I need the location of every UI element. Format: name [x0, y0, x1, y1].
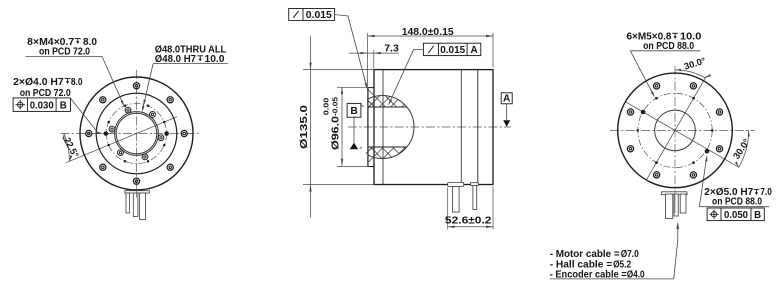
svg-text:B: B [350, 106, 357, 117]
right view dowel hole upper-left [641, 110, 646, 115]
left view 8 M4 holes on PCD72 [107, 104, 165, 162]
right view PCD88 pitch circle [638, 93, 712, 167]
svg-text:B: B [754, 210, 761, 221]
svg-text:7.3: 7.3 [384, 43, 399, 54]
right view 60deg index line [646, 76, 706, 180]
right view vertical centerline [674, 66, 676, 213]
middle hub section circle [351, 96, 414, 159]
parallelism frame 1 leader [335, 15, 367, 87]
parallelism frame 2 box [423, 43, 480, 55]
svg-text:on PCD 72.0: on PCD 72.0 [20, 88, 71, 99]
dim 7.3 extension [373, 50, 375, 69]
middle bore top line [368, 106, 407, 108]
dim 96 extension top [337, 86, 369, 88]
svg-text:Ø135.0: Ø135.0 [299, 105, 310, 149]
label 6xM5 underline leader [630, 50, 700, 52]
right view 6 M5 holes on PCD88 [637, 97, 714, 164]
left view counterbore circle D48 H7 [115, 112, 159, 156]
angle dim 30 right arc [739, 130, 749, 167]
left view 22.5deg index line [66, 117, 177, 163]
svg-text:A: A [470, 45, 478, 56]
svg-text:0.050: 0.050 [724, 210, 748, 221]
svg-text:on PCD 88.0: on PCD 88.0 [712, 196, 762, 207]
dim 52.6 extension right [492, 187, 494, 230]
right view dowel hole lower-right [705, 149, 710, 154]
left view centerline over cables [136, 188, 138, 198]
datum B leader [353, 117, 355, 142]
dim 135 extension top [303, 69, 374, 71]
middle cable boot 2 [471, 183, 479, 186]
note underline and leader [550, 278, 674, 280]
svg-text:7.0: 7.0 [760, 187, 772, 198]
dim 135 line [310, 36, 312, 218]
dim 7.3 line [349, 52, 399, 54]
datum A leader [506, 104, 508, 120]
right view 8 housing screws [627, 83, 722, 178]
left view dowel hole right [164, 131, 169, 136]
left view front opening circle D96 [96, 93, 177, 174]
left view vertical centerline [136, 70, 138, 198]
svg-text:0.015: 0.015 [306, 10, 332, 21]
middle motor cable side [453, 187, 460, 213]
dim 148 extension right [492, 33, 494, 68]
left view body outer circle D135 [80, 77, 193, 190]
datum A box [501, 93, 512, 104]
angle dimension 22.5deg arc [64, 134, 70, 162]
position frame right leader [699, 158, 706, 207]
dim 148 line [368, 35, 493, 37]
middle bore bottom line [368, 146, 407, 148]
label 8xM4 underline and leader [26, 55, 103, 57]
svg-text:148.0±0.15: 148.0±0.15 [402, 27, 454, 38]
position frame left leader [71, 98, 98, 132]
parallelism frame 2 leader [389, 49, 423, 103]
angle dim 30 top arc [675, 70, 705, 78]
middle front pilot bottom edge [368, 166, 374, 168]
label 2xD5 underline [699, 206, 769, 208]
dim 96 line [341, 87, 343, 166]
datum B box [347, 103, 361, 117]
middle cable boot 1 [448, 182, 464, 186]
svg-text:52.6±0.2: 52.6±0.2 [445, 215, 492, 226]
label D48 underline and leader [153, 63, 228, 65]
svg-text:- Motor cable =: - Motor cable = [550, 249, 620, 260]
right view motor cable [666, 194, 673, 219]
middle rear joint line 1 [460, 70, 462, 185]
svg-text:0.030: 0.030 [30, 101, 54, 112]
right view centerline over cables [674, 190, 676, 213]
dim 52.6 extension left [447, 188, 449, 230]
right view hall cable [674, 194, 678, 216]
position frame left box [13, 98, 70, 112]
middle hub hatching [306, 82, 548, 170]
svg-text:0.015: 0.015 [440, 45, 465, 56]
left view cable clamp bar [125, 191, 149, 193]
position frame right box [707, 208, 764, 221]
left view encoder cable [126, 193, 130, 213]
left view horizontal centerline [61, 133, 200, 135]
middle encoder cable side [473, 185, 477, 209]
svg-text:B: B [60, 101, 67, 112]
left view PCD72 pitch circle [106, 103, 166, 163]
middle view horizontal centerline [348, 126, 511, 128]
svg-text:Ø96.0: Ø96.0 [331, 116, 342, 150]
dim 52.6 line [448, 226, 493, 228]
dim 148 extension left [367, 33, 369, 87]
right view cable clamp bar [662, 192, 688, 195]
left view 8 housing screws on PCD115 [86, 83, 188, 185]
parallelism frame 1 box [289, 9, 335, 21]
right view bore circle D48 [655, 110, 696, 151]
left view bore circle D48 thru [116, 113, 157, 154]
svg-text:-0.05: -0.05 [330, 96, 339, 116]
svg-text:8.0: 8.0 [71, 77, 83, 88]
middle body rectangle [374, 70, 493, 185]
middle stator front joint line [382, 70, 384, 185]
middle rear joint line 2 [477, 70, 479, 185]
left view dowel hole left [104, 131, 109, 136]
middle front pilot top edge [368, 87, 374, 89]
right view encoder cable [680, 194, 686, 213]
left view motor cable [140, 193, 146, 219]
dim 135 extension bottom [303, 184, 374, 186]
svg-text:2×Ø4.0 H7: 2×Ø4.0 H7 [13, 77, 64, 88]
svg-text:Ø7.0: Ø7.0 [621, 249, 639, 260]
middle front pilot face line [367, 88, 369, 167]
right view horizontal centerline [610, 129, 755, 131]
svg-text:A: A [503, 94, 511, 105]
left view 6 cover screws on PCD60 [109, 107, 164, 160]
left view hall cable [133, 193, 138, 216]
svg-text:0.00: 0.00 [321, 98, 330, 116]
right view body outer circle D135 [618, 73, 733, 188]
dim 96 extension bottom [337, 166, 369, 168]
right view -30deg index line [626, 102, 739, 167]
